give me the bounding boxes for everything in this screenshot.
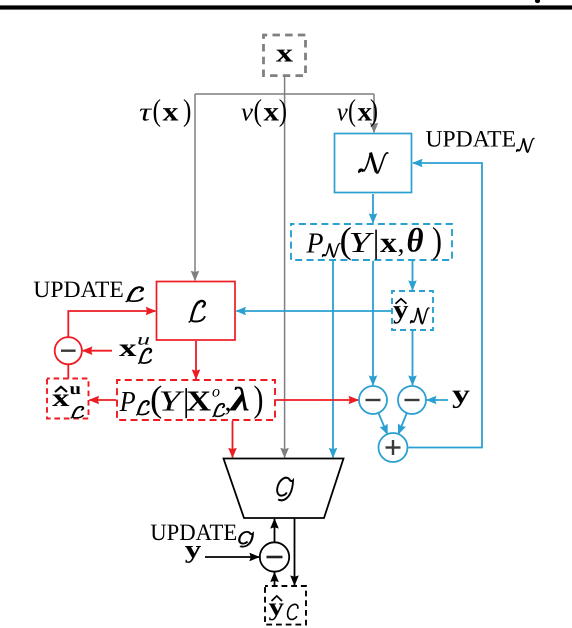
svg-text:|: |	[373, 225, 380, 261]
svg-text:): )	[432, 221, 442, 262]
svg-text:x: x	[380, 227, 398, 259]
svg-text:u: u	[70, 379, 82, 398]
svg-text:): )	[254, 379, 264, 420]
svg-text:x: x	[276, 39, 293, 68]
svg-text:x: x	[163, 97, 180, 127]
svg-text:u: u	[137, 331, 150, 348]
svg-text:(: (	[153, 93, 162, 128]
svg-text:UPDATE: UPDATE	[426, 127, 517, 153]
svg-text:UPDATE: UPDATE	[33, 277, 124, 303]
svg-text:θ: θ	[407, 223, 424, 260]
svg-text:(: (	[254, 93, 263, 128]
svg-text:ν: ν	[241, 98, 253, 127]
svg-text:Y: Y	[349, 227, 375, 259]
svg-text:P: P	[306, 227, 324, 259]
svg-text:x: x	[52, 385, 70, 412]
svg-text:x: x	[119, 335, 137, 362]
svg-text:y: y	[452, 380, 470, 409]
svg-text:): )	[183, 93, 191, 128]
svg-text:,: ,	[398, 228, 405, 259]
svg-text:(: (	[348, 93, 356, 128]
svg-text:o: o	[212, 384, 220, 401]
svg-text:y: y	[269, 594, 285, 621]
svg-text:): )	[279, 93, 287, 128]
svg-text:X: X	[186, 386, 211, 418]
svg-text:ν: ν	[337, 98, 348, 127]
svg-text:τ: τ	[139, 98, 153, 127]
svg-text:Y: Y	[159, 386, 185, 418]
svg-text:x: x	[264, 97, 280, 127]
svg-text:): )	[370, 93, 378, 128]
svg-text:λ: λ	[228, 382, 250, 419]
svg-text:y: y	[185, 537, 202, 564]
svg-text:P: P	[119, 386, 136, 418]
